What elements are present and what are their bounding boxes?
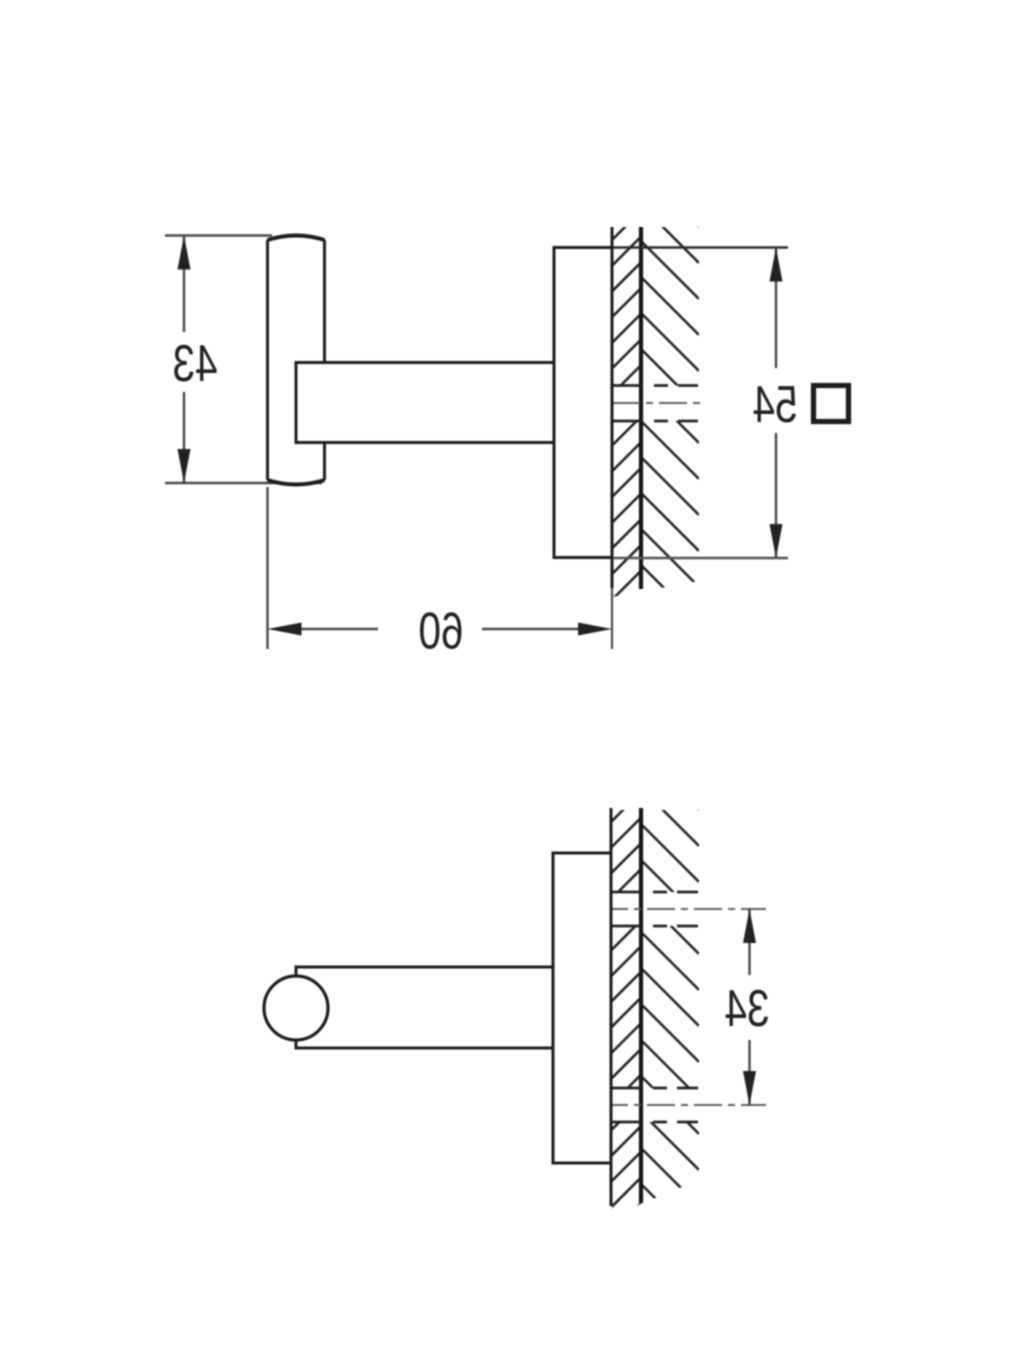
svg-text:43: 43 [172,334,217,392]
svg-text:60: 60 [418,602,463,660]
svg-text:34: 34 [724,979,769,1037]
svg-text:54: 54 [752,375,797,433]
